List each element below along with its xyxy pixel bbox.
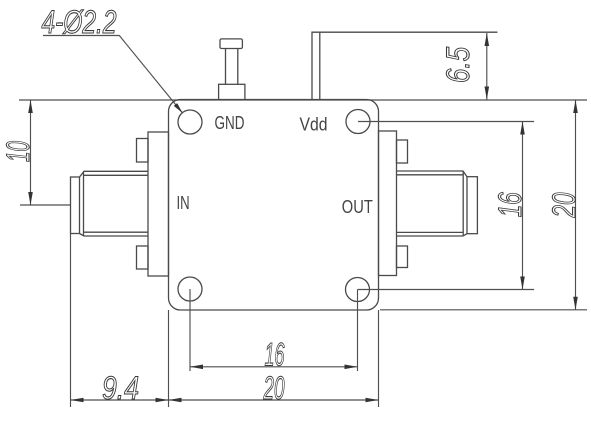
dimension 16 (right) line — [522, 122, 524, 290]
svg-text:9.4: 9.4 — [102, 370, 139, 406]
dimension 9.4 arrows — [71, 398, 84, 403]
dimension 6.5 arrows — [485, 33, 490, 46]
extension from bottom-right hole — [357, 290, 359, 372]
SMA connector IN end cap — [71, 177, 80, 234]
svg-text:GND: GND — [215, 112, 245, 133]
extension line from bottom-right hole — [358, 289, 535, 291]
svg-text:20: 20 — [263, 370, 285, 406]
dimension 20 (bottom) line — [169, 399, 379, 401]
cover lid (top right) — [312, 32, 498, 100]
dimension 10 arrows — [28, 100, 33, 113]
dimension 20 (right) line — [575, 100, 577, 310]
bottom extension line from body bottom — [380, 309, 587, 311]
leader arrowhead — [174, 103, 183, 113]
dimension 16 (right) arrows — [520, 122, 525, 135]
dimension 20 (right) arrows — [573, 100, 578, 113]
svg-text:Vdd: Vdd — [300, 113, 328, 134]
extension line from top-right hole — [358, 121, 534, 123]
dimension 10 (left) line — [30, 100, 32, 205]
svg-text:20: 20 — [546, 192, 582, 218]
right flange lower tab — [397, 246, 408, 268]
hole bottom-right — [346, 278, 370, 302]
extension from connector tip — [70, 234, 72, 408]
left flange plate — [148, 132, 169, 276]
dimension 16 (bottom) line — [190, 366, 358, 368]
hole bottom-left — [178, 277, 202, 301]
wire main top horizontal line — [19, 99, 587, 101]
feedthrough pin cap — [220, 39, 242, 49]
feedthrough pin base — [219, 84, 245, 100]
extension from body right edge — [378, 310, 380, 407]
svg-text:10: 10 — [0, 141, 36, 162]
module body outline — [169, 100, 379, 311]
svg-text:IN: IN — [177, 192, 190, 213]
right flange plate — [379, 131, 397, 276]
svg-text:16: 16 — [492, 192, 528, 217]
extension from bottom-left hole — [189, 289, 191, 371]
dimension 6.5 line — [486, 33, 488, 100]
dimension 20 (bottom) arrows — [169, 398, 182, 403]
hole top-right — [346, 110, 370, 134]
dimension 10 extension line — [20, 204, 70, 206]
SMA connector OUT end cap — [467, 177, 477, 234]
dimension 9.4 line — [71, 399, 169, 401]
left flange lower tab — [137, 246, 149, 269]
svg-text:6.5: 6.5 — [440, 47, 476, 83]
svg-text:16: 16 — [265, 336, 285, 372]
leader line for 4-Ø2.2 — [43, 36, 183, 114]
SMA connector OUT body (right) — [397, 171, 478, 236]
hole top-left — [178, 110, 202, 134]
right flange upper tab — [397, 140, 408, 163]
dimension 16 (bottom) arrows — [190, 365, 203, 370]
extension from body left edge — [168, 310, 170, 407]
svg-text:4-Ø2.2: 4-Ø2.2 — [42, 4, 117, 40]
SMA connector IN body (left) — [71, 171, 149, 236]
svg-text:OUT: OUT — [342, 196, 373, 217]
feedthrough pin stem — [226, 49, 238, 85]
left flange upper tab — [137, 139, 149, 163]
